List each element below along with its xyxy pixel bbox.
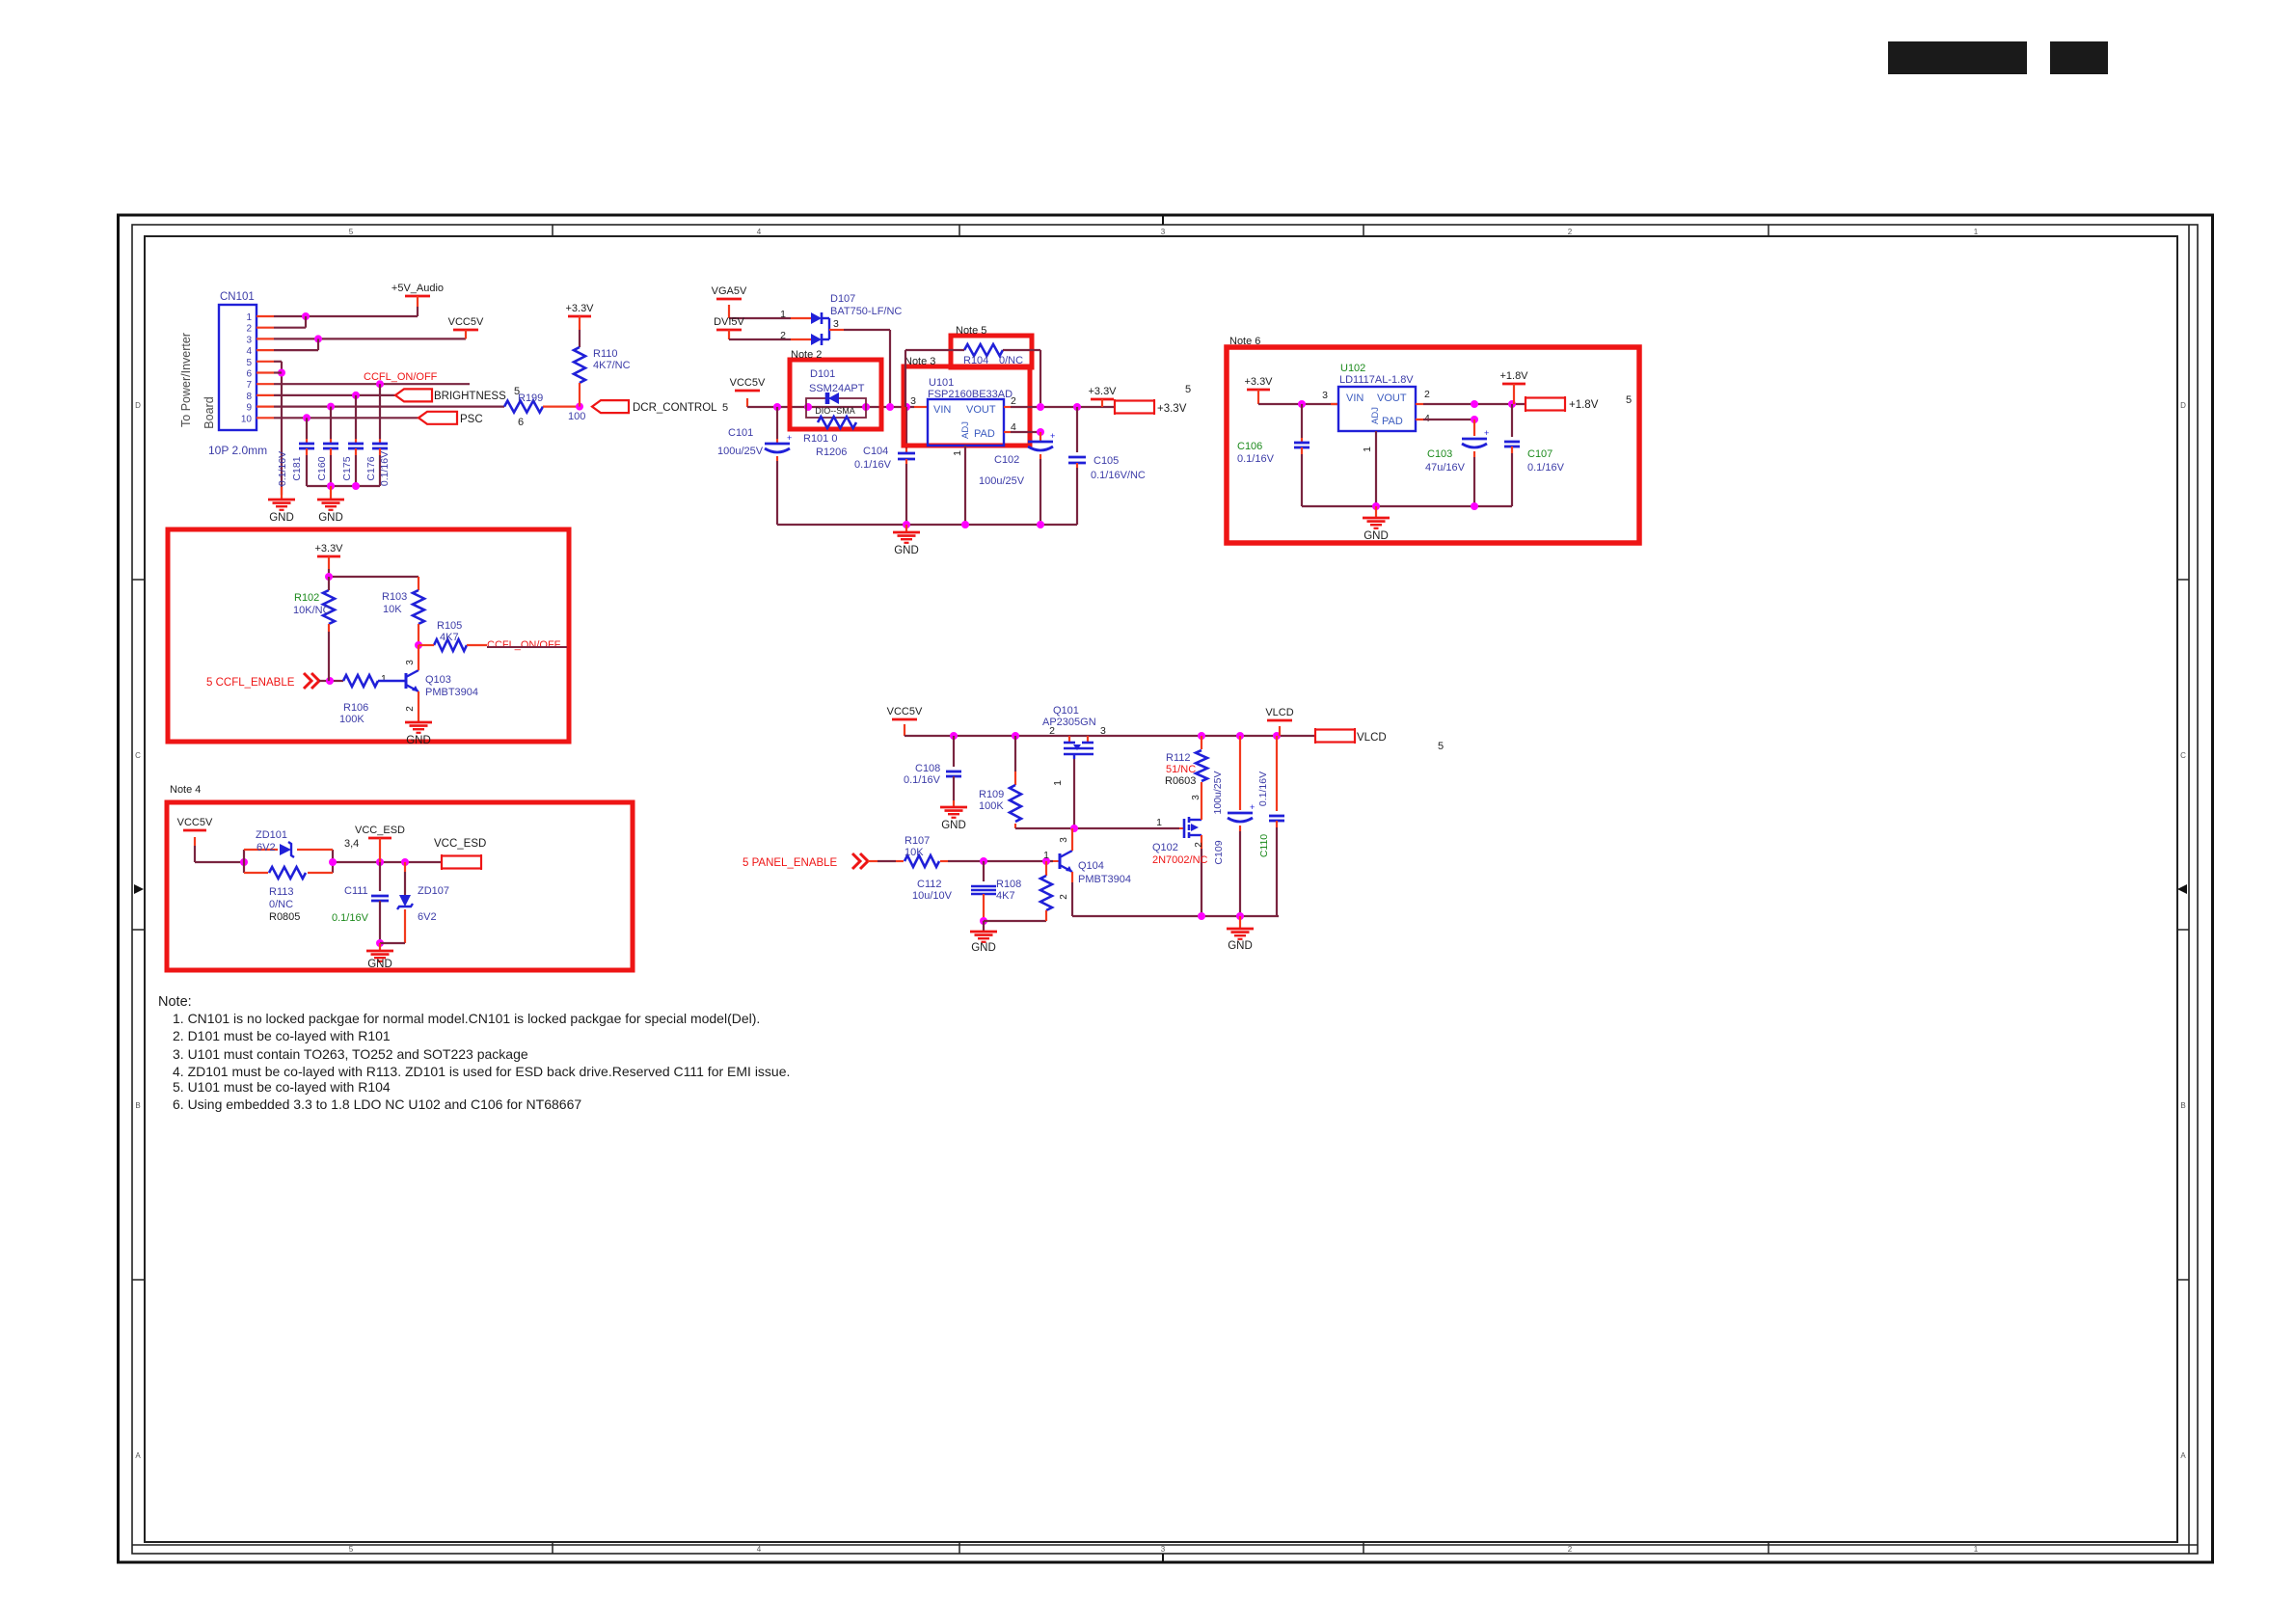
svg-text:GND: GND (367, 959, 392, 970)
svg-text:R109: R109 (979, 789, 1004, 800)
svg-text:9: 9 (246, 403, 252, 414)
svg-text:3,4: 3,4 (344, 838, 359, 850)
svg-text:+: + (1250, 802, 1255, 812)
svg-text:0.1/16V: 0.1/16V (1527, 462, 1565, 474)
svg-text:4K7/NC: 4K7/NC (593, 360, 631, 371)
svg-text:5: 5 (246, 358, 252, 368)
svg-text:D101: D101 (810, 368, 835, 380)
svg-text:A: A (2180, 1451, 2186, 1460)
svg-text:VLCD: VLCD (1357, 732, 1387, 744)
svg-text:+3.3V: +3.3V (565, 303, 594, 314)
svg-text:2: 2 (1049, 725, 1055, 737)
svg-text:R108: R108 (996, 879, 1021, 890)
svg-text:1: 1 (952, 450, 963, 456)
svg-text:ADJ: ADJ (960, 421, 971, 439)
svg-text:VCC_ESD: VCC_ESD (434, 838, 486, 850)
svg-text:D: D (2180, 401, 2186, 410)
svg-text:C176: C176 (365, 456, 377, 480)
svg-text:1: 1 (1156, 817, 1162, 828)
svg-text:6V2: 6V2 (418, 911, 437, 923)
svg-text:3: 3 (1161, 1545, 1166, 1554)
svg-text:GND: GND (1363, 530, 1389, 542)
svg-text:Q101: Q101 (1053, 705, 1079, 717)
svg-text:100K: 100K (339, 714, 364, 725)
svg-text:6: 6 (518, 417, 524, 428)
svg-text:C101: C101 (728, 427, 753, 439)
svg-text:5: 5 (1438, 741, 1444, 752)
svg-text:2: 2 (405, 706, 416, 712)
svg-text:PAD: PAD (974, 428, 995, 440)
svg-text:R199: R199 (518, 392, 543, 404)
svg-text:DCR_CONTROL: DCR_CONTROL (633, 402, 717, 414)
svg-text:C107: C107 (1527, 448, 1552, 460)
svg-text:Note 2: Note 2 (791, 349, 822, 361)
svg-text:GND: GND (269, 512, 294, 524)
svg-text:PAD: PAD (1382, 416, 1403, 427)
svg-text:Note 5: Note 5 (956, 325, 986, 337)
svg-text:R103: R103 (382, 591, 407, 603)
svg-text:5: 5 (349, 228, 354, 236)
svg-text:SSM24APT: SSM24APT (809, 383, 865, 394)
svg-text:+3.3V: +3.3V (1088, 386, 1117, 397)
svg-text:R0805: R0805 (269, 911, 300, 923)
svg-text:1. CN101 is no locked packgae: 1. CN101 is no locked packgae for normal… (173, 1011, 760, 1026)
svg-text:0.1/16V: 0.1/16V (277, 451, 288, 486)
svg-text:2: 2 (246, 324, 252, 335)
svg-text:+: + (787, 433, 792, 443)
svg-text:To Power/Inverter: To Power/Inverter (179, 333, 193, 427)
svg-text:B: B (135, 1101, 140, 1110)
svg-text:3: 3 (1100, 725, 1106, 737)
svg-text:Q102: Q102 (1152, 842, 1178, 853)
svg-text:+3.3V: +3.3V (314, 543, 343, 555)
svg-text:3: 3 (1191, 795, 1201, 800)
svg-text:C108: C108 (915, 763, 940, 774)
svg-text:R106: R106 (343, 702, 368, 714)
svg-text:C160: C160 (316, 456, 328, 480)
svg-text:B: B (2180, 1101, 2185, 1110)
svg-text:4: 4 (757, 228, 762, 236)
svg-text:10: 10 (241, 414, 253, 424)
svg-text:ADJ: ADJ (1370, 407, 1381, 424)
svg-text:R110: R110 (593, 348, 617, 360)
svg-text:6: 6 (246, 369, 252, 380)
svg-text:LD1117AL-1.8V: LD1117AL-1.8V (1339, 374, 1414, 386)
svg-text:4K7: 4K7 (996, 890, 1015, 902)
svg-text:2: 2 (1424, 389, 1430, 400)
svg-text:C103: C103 (1427, 448, 1452, 460)
svg-text:0/NC: 0/NC (999, 355, 1023, 366)
svg-text:3: 3 (1322, 390, 1328, 401)
svg-text:C: C (2180, 751, 2186, 760)
svg-text:5 CCFL_ENABLE: 5 CCFL_ENABLE (206, 677, 295, 689)
svg-text:1: 1 (381, 673, 387, 685)
svg-text:R1206: R1206 (816, 447, 847, 458)
svg-text:2: 2 (780, 330, 786, 341)
svg-text:2: 2 (1059, 894, 1069, 900)
svg-text:4: 4 (246, 346, 252, 357)
svg-text:GND: GND (971, 942, 996, 954)
svg-text:51/NC: 51/NC (1166, 764, 1196, 775)
svg-text:1: 1 (1974, 228, 1979, 236)
svg-text:0.1/16V: 0.1/16V (904, 774, 941, 786)
svg-text:GND: GND (318, 512, 343, 524)
svg-text:VOUT: VOUT (966, 404, 996, 416)
svg-text:2: 2 (1194, 842, 1204, 848)
svg-text:1: 1 (1974, 1545, 1979, 1554)
svg-text:C105: C105 (1093, 455, 1119, 467)
svg-text:DVI5V: DVI5V (714, 316, 744, 328)
svg-text:R113: R113 (269, 886, 293, 898)
svg-text:GND: GND (894, 545, 919, 556)
svg-text:+1.8V: +1.8V (1499, 370, 1528, 382)
svg-text:VCC_ESD: VCC_ESD (355, 825, 405, 836)
svg-text:VOUT: VOUT (1377, 392, 1407, 404)
svg-text:R102: R102 (294, 592, 319, 604)
svg-text:C: C (135, 751, 141, 760)
svg-text:R104: R104 (963, 355, 988, 366)
svg-text:10K: 10K (383, 604, 402, 615)
svg-text:VCC5V: VCC5V (448, 316, 484, 328)
svg-text:2: 2 (1568, 228, 1573, 236)
svg-text:C111: C111 (344, 885, 368, 897)
svg-text:+: + (1484, 428, 1489, 438)
svg-text:10P 2.0mm: 10P 2.0mm (208, 444, 267, 457)
svg-text:+: + (1050, 431, 1055, 441)
svg-text:+3.3V: +3.3V (1157, 403, 1187, 415)
svg-text:100u/25V: 100u/25V (1212, 771, 1224, 815)
svg-text:C102: C102 (994, 454, 1019, 466)
svg-text:0/NC: 0/NC (269, 899, 293, 910)
svg-text:0.1/16V: 0.1/16V (1257, 771, 1269, 806)
svg-text:3: 3 (1059, 837, 1069, 843)
svg-text:R107: R107 (904, 835, 930, 847)
svg-text:100: 100 (568, 411, 585, 422)
svg-text:1: 1 (780, 309, 786, 320)
svg-text:R101 0: R101 0 (803, 433, 837, 445)
svg-text:1: 1 (1052, 780, 1064, 786)
svg-text:Note:: Note: (158, 994, 192, 1010)
svg-text:BAT750-LF/NC: BAT750-LF/NC (830, 306, 902, 317)
svg-text:3: 3 (833, 318, 839, 330)
svg-text:4K7: 4K7 (440, 632, 459, 643)
svg-text:0.1/16V: 0.1/16V (1237, 453, 1275, 465)
svg-text:6. Using embedded 3.3 to 1.8 L: 6. Using embedded 3.3 to 1.8 LDO NC U102… (173, 1096, 581, 1112)
svg-text:PMBT3904: PMBT3904 (425, 687, 478, 698)
svg-text:2N7002/NC: 2N7002/NC (1152, 854, 1208, 866)
svg-text:4: 4 (757, 1545, 762, 1554)
svg-text:VIN: VIN (1346, 392, 1363, 404)
svg-text:R112: R112 (1166, 752, 1190, 764)
svg-text:ZD107: ZD107 (418, 885, 449, 897)
svg-text:C110: C110 (1258, 834, 1270, 857)
svg-text:1: 1 (1362, 447, 1373, 452)
svg-text:47u/16V: 47u/16V (1425, 462, 1466, 474)
svg-text:VGA5V: VGA5V (712, 285, 747, 297)
svg-text:Note 4: Note 4 (170, 784, 201, 796)
svg-text:2: 2 (1568, 1545, 1573, 1554)
svg-text:C106: C106 (1237, 441, 1262, 452)
svg-text:U102: U102 (1340, 363, 1365, 374)
svg-text:0.1/16V: 0.1/16V (379, 451, 391, 486)
svg-text:5. U101 must be co-layed with: 5. U101 must be co-layed with R104 (173, 1079, 391, 1095)
svg-text:5: 5 (1626, 394, 1632, 406)
svg-text:VCC5V: VCC5V (177, 817, 213, 828)
svg-text:C175: C175 (341, 456, 353, 480)
svg-text:PSC: PSC (460, 414, 483, 425)
svg-text:1: 1 (246, 312, 252, 323)
svg-text:Q103: Q103 (425, 674, 451, 686)
svg-text:100K: 100K (979, 800, 1004, 812)
svg-text:100u/25V: 100u/25V (979, 475, 1025, 487)
svg-text:3. U101 must contain TO263, TO: 3. U101 must contain TO263, TO252 and SO… (173, 1046, 528, 1062)
svg-text:5: 5 (722, 402, 728, 414)
svg-text:6V2: 6V2 (256, 842, 276, 853)
svg-text:10K: 10K (904, 847, 924, 858)
svg-text:D107: D107 (830, 293, 855, 305)
svg-text:R0603: R0603 (1165, 775, 1196, 787)
svg-text:4. ZD101 must be co-layed with: 4. ZD101 must be co-layed with R113. ZD1… (173, 1064, 790, 1079)
svg-text:CCFL_ON/OFF: CCFL_ON/OFF (487, 639, 561, 651)
svg-text:VIN: VIN (933, 404, 951, 416)
svg-text:C104: C104 (863, 446, 888, 457)
svg-text:ZD101: ZD101 (256, 829, 287, 841)
svg-text:BRIGHTNESS: BRIGHTNESS (434, 391, 506, 402)
svg-text:GND: GND (406, 735, 431, 746)
svg-text:8: 8 (246, 392, 252, 402)
svg-text:D: D (135, 401, 141, 410)
svg-text:3: 3 (910, 395, 916, 407)
svg-text:R105: R105 (437, 620, 462, 632)
svg-text:5: 5 (349, 1545, 354, 1554)
svg-text:2. D101 must be co-layed with: 2. D101 must be co-layed with R101 (173, 1028, 391, 1043)
svg-text:7: 7 (246, 380, 252, 391)
svg-text:0.1/16V/NC: 0.1/16V/NC (1091, 470, 1146, 481)
svg-text:2: 2 (1011, 395, 1016, 407)
svg-text:C181: C181 (291, 456, 303, 480)
svg-text:CCFL_ON/OFF: CCFL_ON/OFF (364, 371, 438, 383)
svg-text:Q104: Q104 (1078, 860, 1104, 872)
svg-text:100u/25V: 100u/25V (717, 446, 764, 457)
svg-text:3: 3 (1161, 228, 1166, 236)
svg-text:10K/NC: 10K/NC (293, 605, 331, 616)
svg-text:+1.8V: +1.8V (1569, 399, 1599, 411)
svg-text:DIO--SMA: DIO--SMA (815, 406, 855, 416)
svg-text:3: 3 (405, 660, 416, 665)
svg-text:0.1/16V: 0.1/16V (332, 912, 369, 924)
svg-text:5 PANEL_ENABLE: 5 PANEL_ENABLE (742, 857, 838, 869)
svg-text:VCC5V: VCC5V (887, 706, 923, 717)
svg-text:5: 5 (1185, 384, 1191, 395)
svg-text:Note 3: Note 3 (904, 356, 935, 367)
svg-text:3: 3 (246, 335, 252, 345)
svg-text:Board: Board (202, 396, 216, 428)
svg-text:CN101: CN101 (220, 291, 255, 303)
svg-text:VLCD: VLCD (1265, 707, 1293, 718)
svg-text:A: A (135, 1451, 141, 1460)
svg-text:GND: GND (1228, 940, 1253, 952)
svg-text:C109: C109 (1213, 840, 1225, 864)
svg-text:C112: C112 (917, 879, 941, 890)
svg-text:VCC5V: VCC5V (730, 377, 766, 389)
svg-text:GND: GND (941, 820, 966, 831)
svg-text:0.1/16V: 0.1/16V (854, 459, 892, 471)
svg-text:+5V_Audio: +5V_Audio (391, 283, 444, 294)
svg-text:+3.3V: +3.3V (1244, 376, 1273, 388)
svg-text:U101: U101 (929, 377, 954, 389)
svg-text:10u/10V: 10u/10V (912, 890, 953, 902)
svg-text:PMBT3904: PMBT3904 (1078, 874, 1131, 885)
svg-text:1: 1 (1043, 850, 1049, 861)
